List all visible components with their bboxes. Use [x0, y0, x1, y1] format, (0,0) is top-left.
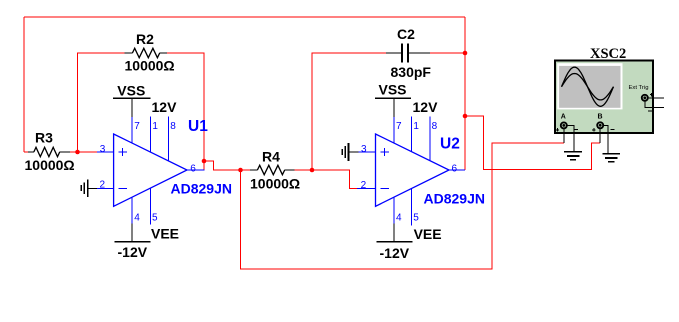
ground (scope A) — [564, 151, 582, 153]
U1 +/- input marks — [119, 148, 128, 189]
svg-text:12V: 12V — [152, 99, 178, 115]
scope B minus lead to ground — [603, 125, 608, 154]
wire: U1 output node to R4 left — [241, 169, 251, 171]
wire: right vertical from top run down to U2 output pin 6 — [464, 17, 466, 170]
svg-text:VEE: VEE — [151, 226, 179, 242]
svg-text:R4: R4 — [262, 148, 280, 164]
svg-text:6: 6 — [190, 163, 196, 174]
U2 pin 5 lead — [411, 189, 413, 226]
svg-text:2: 2 — [361, 180, 367, 191]
power rail VEE/-12V (U1 pin 4) — [115, 223, 179, 260]
svg-text:VEE: VEE — [414, 226, 442, 242]
wire: top horizontal run (U2 output net to R3 input) — [24, 16, 465, 18]
svg-text:7: 7 — [396, 121, 402, 132]
wire: R4 right terminal to node — [295, 169, 313, 171]
U2 pin 8 lead — [429, 116, 431, 160]
wire: C2 branch up from R4 right node — [312, 53, 386, 170]
power rail VSS (U2 pin 7) — [375, 81, 411, 117]
capacitor C2 — [386, 26, 431, 80]
U1 pin 1 lead — [150, 116, 152, 152]
U2 +/- input marks — [380, 148, 389, 189]
svg-text:3: 3 — [361, 144, 367, 155]
junction node: scope B branch — [463, 114, 468, 119]
U1 pin 6 stub — [187, 169, 205, 171]
U1 pin 3 stub — [97, 151, 114, 153]
svg-text:7: 7 — [134, 121, 140, 132]
svg-text:5: 5 — [152, 213, 158, 224]
U1 pin 8 lead — [168, 116, 170, 161]
wire: U1 output stub riser — [204, 161, 241, 170]
power rail VSS (U1 pin 7) — [113, 82, 150, 117]
svg-text:XSC2: XSC2 — [590, 46, 626, 62]
svg-text:AD829JN: AD829JN — [171, 181, 232, 197]
resistor R4 — [250, 148, 300, 191]
svg-text:R3: R3 — [35, 130, 53, 146]
scope trace channel B (inner sine) — [562, 74, 614, 100]
svg-text:Ext Trig: Ext Trig — [629, 85, 649, 91]
svg-text:2: 2 — [100, 180, 106, 191]
svg-text:-12V: -12V — [118, 244, 148, 260]
svg-text:C2: C2 — [397, 26, 415, 42]
U2 pin 1 lead — [411, 116, 413, 151]
wire: bottom run from U1 output node to scope channel A — [241, 143, 564, 269]
U2 pin 4 lead — [393, 197, 395, 223]
U2 pin 6 stub — [449, 169, 465, 171]
junction node: R3/R2/U1+ — [75, 150, 80, 155]
svg-text:10000Ω: 10000Ω — [125, 57, 175, 73]
scope screen — [557, 63, 622, 109]
U2 pin 2 stub — [357, 187, 376, 189]
junction node: U1 output / bottom run — [238, 168, 243, 173]
junction node: R2/U1 output riser — [202, 159, 207, 164]
U1 pin 7 lead — [131, 117, 133, 144]
svg-text:6: 6 — [452, 163, 458, 174]
svg-text:10000Ω: 10000Ω — [25, 157, 75, 173]
resistor R2 — [125, 31, 175, 73]
junction node: R4 right / C2 branch — [310, 168, 315, 173]
U1 pin 4 lead — [131, 197, 133, 223]
svg-text:4: 4 — [396, 213, 402, 224]
ground (U2 pin 3) — [342, 143, 358, 161]
svg-text:VSS: VSS — [379, 81, 407, 97]
wire: R2 right terminal across and down to U1 output node — [167, 53, 204, 161]
svg-text:U1: U1 — [188, 118, 208, 135]
scope A minus lead to ground — [567, 125, 574, 151]
wire: scope channel B branch from right vertical — [465, 116, 600, 170]
svg-text:A: A — [561, 114, 566, 121]
wire: C2 right terminal to right vertical — [430, 52, 465, 54]
power rail VEE/-12V (U2 pin 4) — [376, 223, 441, 260]
svg-text:VSS: VSS — [117, 82, 145, 98]
op-amp U2 (AD829JN) — [357, 116, 485, 225]
U2 pin 3 stub — [359, 151, 376, 153]
svg-text:AD829JN: AD829JN — [424, 191, 485, 207]
op-amp U1 (AD829JN) — [97, 116, 232, 224]
wire: left vertical from top-left corner down to R3 input — [23, 17, 25, 152]
scope body — [555, 61, 653, 134]
wire: R3 left lead connection — [24, 151, 29, 153]
wire: R3 right terminal to U1 +input stub — [70, 151, 97, 153]
U1 pin 5 lead — [150, 188, 152, 224]
scope A terminal stub to wire — [563, 129, 565, 144]
scope trace channel A (outer sine) — [562, 67, 614, 106]
Ext Trig terminal — [642, 95, 648, 101]
wire: feedback branch up from node to R2 left — [78, 53, 125, 152]
svg-text:1: 1 — [152, 121, 158, 132]
svg-text:B: B — [598, 114, 603, 121]
ground (U1 pin 2) — [81, 179, 97, 197]
svg-text:4: 4 — [134, 213, 140, 224]
svg-text:1: 1 — [413, 121, 419, 132]
U2 pin 7 lead — [393, 117, 395, 144]
resistor R3 — [25, 130, 75, 174]
svg-text:8: 8 — [432, 121, 438, 132]
U1 pin 2 stub — [97, 187, 114, 189]
oscilloscope XSC2 — [555, 46, 664, 162]
ground (scope B) — [602, 153, 620, 155]
scope B terminal stub to wire — [599, 128, 601, 143]
svg-text:5: 5 — [413, 213, 419, 224]
svg-text:3: 3 — [100, 144, 106, 155]
svg-text:R2: R2 — [136, 31, 154, 47]
svg-text:10000Ω: 10000Ω — [250, 176, 300, 192]
svg-text:830pF: 830pF — [391, 64, 432, 80]
junction node: C2 right / top net — [463, 51, 468, 56]
wire: node to U2 inverting input — [312, 170, 357, 188]
svg-text:8: 8 — [170, 121, 176, 132]
svg-text:12V: 12V — [413, 99, 439, 115]
svg-text:U2: U2 — [440, 136, 460, 153]
svg-text:-12V: -12V — [380, 245, 410, 261]
